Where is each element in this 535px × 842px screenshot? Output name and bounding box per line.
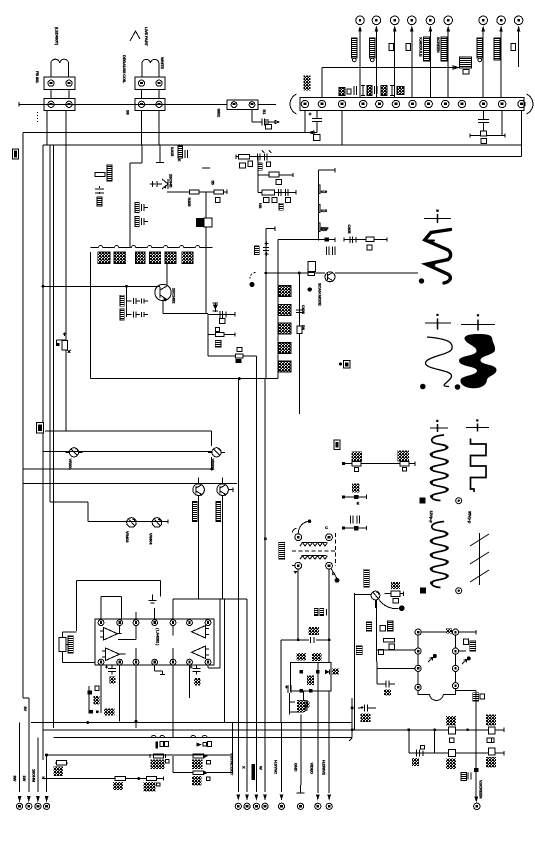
wire left col feed [376, 600, 415, 684]
svg-text:SCAN MODE: SCAN MODE [317, 283, 322, 306]
wire y469 [23, 468, 212, 470]
capacitor C513 [285, 685, 291, 693]
wire y580.3 [76, 580, 160, 631]
svg-text:16OHM: 16OHM [31, 769, 36, 783]
connector circle vscreen [474, 803, 480, 809]
wire base line y286 [43, 285, 155, 287]
op-amp tri LR [192, 646, 210, 659]
wire T501 D diagonal [331, 569, 337, 579]
capacitor C913 [419, 37, 430, 61]
component C503 [354, 495, 360, 506]
capacitor C606b [190, 666, 201, 686]
wire y502 [50, 501, 88, 503]
label box R312 [276, 179, 282, 184]
connector P901 lower [44, 99, 75, 111]
transistor Q301 [150, 179, 168, 189]
wire x206 down [205, 192, 207, 314]
diode pack D603 [279, 323, 291, 334]
test point arc [250, 272, 256, 278]
wire y428.5 [45, 430, 212, 432]
op-amp IC601 [95, 619, 214, 665]
wire bus y737.5 [54, 737, 353, 739]
speaker drop wires [20, 698, 47, 792]
svg-text:35Vp-p: 35Vp-p [468, 511, 473, 524]
label cluster x178 [178, 146, 188, 158]
waveform coil H3 [431, 522, 448, 588]
resistor R605 [366, 237, 374, 250]
speaker arrows [18, 796, 49, 803]
wire bus y730.6 [352, 728, 504, 732]
svg-text:C606: C606 [301, 305, 306, 315]
svg-text:DEGAUSS COIL: DEGAUSS COIL [122, 55, 127, 84]
junction dot [335, 578, 340, 583]
resistor R912 [406, 44, 411, 51]
coil H3 peak dots [430, 532, 449, 584]
component RT601 [289, 700, 309, 785]
wire bus y728 [43, 729, 352, 731]
connector P902 upper [135, 77, 165, 90]
test dot [399, 605, 405, 611]
waveform test dot 2 [420, 384, 426, 390]
terminal wires down [360, 30, 519, 98]
transformer bottom notch [418, 689, 455, 701]
wire left bus x49.8 [49, 145, 51, 502]
resistor R321 [236, 348, 243, 364]
wire q404 down [222, 496, 224, 599]
resistor R615 [446, 716, 456, 742]
svg-text:615: 615 [321, 208, 328, 213]
wire y639.8 [281, 639, 329, 641]
transformer block pins right [452, 629, 458, 689]
component black sq [324, 238, 329, 242]
wire bar pin1 drop [298, 111, 314, 135]
component B-B pair [314, 609, 329, 616]
svg-text:J609: J609 [320, 226, 329, 231]
wire pins2 [142, 90, 160, 99]
svg-text:V.SCREEN: V.SCREEN [478, 780, 483, 799]
trimpot VR301 [65, 448, 82, 471]
wire pin7 up [208, 599, 220, 668]
svg-text:X.MODULE: X.MODULE [419, 37, 424, 57]
wire y451.6 [43, 451, 212, 453]
component LNB [473, 693, 485, 702]
start dot [342, 495, 345, 498]
svg-text:619: 619 [321, 189, 328, 194]
svg-text:NS: NS [258, 203, 263, 209]
label stripes 701 [300, 702, 310, 708]
waveform sawtooth H4 [470, 533, 489, 585]
CRT socket bar [290, 94, 533, 114]
resistor R312 [269, 172, 279, 177]
resistor R616 [486, 715, 496, 743]
wire bus C y156.7 [236, 155, 522, 159]
capacitor C303 row [135, 203, 148, 213]
resistor R502 [400, 462, 409, 471]
junction dot [308, 287, 312, 291]
right top wire [459, 630, 477, 634]
gnd T mark [297, 785, 305, 793]
corner letters [264, 525, 335, 576]
diode pack D901 [98, 252, 110, 264]
wire row2 [258, 157, 293, 193]
center drop wires [233, 356, 282, 792]
wire box left x355 [355, 593, 371, 731]
resistor R407 [192, 754, 211, 769]
label box a [37, 423, 44, 434]
wire y762.8 [55, 762, 68, 764]
wire ic top box [101, 597, 155, 619]
wire row y772.6 [173, 756, 232, 773]
tick mark [156, 161, 164, 163]
capacitor C801 [262, 119, 268, 126]
component box 616 [339, 361, 350, 369]
label speckle C503 [352, 484, 359, 493]
resistor R306 [214, 190, 224, 194]
junction dot [308, 520, 312, 524]
wire conn2 drops [142, 111, 160, 146]
waveform axis 3 [461, 314, 495, 330]
capacitor C615 [358, 705, 376, 722]
wire y598.8 [173, 599, 247, 619]
resistor R406 [150, 754, 169, 769]
wire x160.7 [160, 580, 162, 596]
wire y483.5 [23, 483, 237, 485]
wire x211.7 lower [211, 457, 213, 469]
speaker circles [17, 803, 50, 809]
CRT terminal circles row [356, 16, 523, 25]
resistor R305 [189, 190, 199, 194]
wire row y239.5 right [344, 237, 387, 241]
diode D512 [325, 669, 339, 675]
wire y698 [23, 697, 29, 699]
IC inner wires [118, 626, 190, 661]
label MW left edge [13, 149, 19, 159]
waveform axis 1 [424, 210, 451, 224]
wire bus y722.5 [31, 722, 352, 724]
label boxes row3 [258, 198, 290, 211]
svg-text:GND: GND [293, 763, 298, 772]
diode pack D605 [279, 361, 291, 372]
wire x352 [349, 698, 352, 741]
svg-text:3W: 3W [13, 776, 18, 782]
capacitor C307 pair [120, 309, 148, 320]
svg-text:VIDEO: VIDEO [309, 763, 314, 775]
wire emitter y313.5 [163, 314, 208, 357]
component glyphs under y737 [156, 742, 212, 749]
degauss coil L901 [51, 59, 69, 77]
junction dot [42, 285, 45, 288]
op-amp tri UR [192, 626, 210, 639]
svg-text:SCREEN: SCREEN [436, 37, 441, 53]
capacitor C es [350, 236, 356, 242]
wire ic pin drops [101, 665, 190, 738]
wire T501 legs [298, 569, 329, 662]
svg-text:12Vp-p: 12Vp-p [429, 511, 434, 524]
pot mid component [56, 330, 71, 353]
svg-text:WHITE: WHITE [160, 57, 165, 69]
diode pack D906 [182, 252, 193, 264]
waveform axis 4 [430, 420, 448, 432]
diode pack D903 [136, 252, 146, 264]
resistor R313 [262, 190, 274, 195]
fuse box [266, 125, 272, 130]
svg-text:VR404: VR404 [149, 533, 154, 545]
wire row y463.7 [343, 462, 415, 466]
capacitor C306 pair [120, 286, 148, 317]
svg-text:H.DRIVE: H.DRIVE [321, 760, 326, 775]
resistor R510 [385, 582, 404, 603]
label box R306 [215, 198, 220, 203]
degauss coil 2 [142, 59, 159, 77]
wire vscreen arrow [474, 772, 478, 802]
wire bus B y145 [43, 144, 522, 146]
wire xray tail [289, 691, 303, 712]
junction dot [137, 777, 140, 780]
wire left loop [91, 237, 335, 378]
trimpot VR403 [125, 518, 136, 544]
trimpot V501 [371, 591, 380, 608]
junction dot [125, 285, 128, 288]
dot arrow 2 [462, 656, 471, 664]
wire pin3 left [377, 662, 415, 669]
wire conn pin drops [47, 111, 66, 331]
waveform thick sine V1 [425, 230, 451, 284]
svg-text:2SC945: 2SC945 [169, 174, 174, 188]
gnd T [376, 591, 399, 608]
label T501 [279, 543, 285, 560]
cluster above bar [339, 86, 404, 96]
svg-text:2SC2482: 2SC2482 [172, 288, 177, 304]
label speckle R502 [398, 451, 410, 462]
capacitor C802 [309, 111, 323, 141]
capacitor C915 [477, 38, 483, 62]
waveform thin sine V2 [425, 337, 452, 387]
start dot [342, 527, 345, 530]
wire rp1 [63, 632, 95, 663]
component mute [88, 686, 115, 715]
svg-text:VR403: VR403 [125, 531, 130, 543]
resistor R913 [511, 44, 516, 51]
wire xray drops [318, 691, 329, 793]
component IC602 [308, 262, 315, 276]
wire pins [51, 90, 69, 99]
svg-text:LIVE PART: LIVE PART [144, 27, 149, 47]
diode pack D904 [150, 252, 161, 264]
components left col [95, 165, 112, 206]
label C512 [308, 627, 319, 635]
svg-text:C605: C605 [347, 225, 352, 235]
bracket bumps [99, 246, 200, 248]
junction dots center [351, 706, 354, 731]
wire x206 top tick [202, 167, 210, 169]
label Q404 [216, 502, 221, 522]
component C617 [461, 772, 471, 781]
resistor R621 [113, 776, 126, 790]
left column components [356, 621, 394, 655]
capacitor C512 [311, 637, 314, 643]
label box 440 [334, 440, 340, 450]
resistor R320 [215, 333, 223, 348]
capacitor C311 [258, 151, 272, 161]
junction dot [265, 272, 268, 275]
op-amp tri UL [100, 628, 118, 641]
wire top right of q301 [160, 161, 164, 163]
waveform test dot [419, 278, 424, 283]
svg-text:8V: 8V [23, 707, 28, 712]
inductor L302 [208, 328, 235, 337]
resistor R606 [297, 325, 306, 333]
wire row y753.1 [409, 730, 504, 756]
capacitor C606 [296, 305, 306, 315]
J601 bump 2 [318, 204, 327, 213]
svg-text:K: K [41, 777, 46, 780]
label NFL [304, 75, 311, 90]
wire y314.3 [208, 312, 235, 316]
wire x266 vertical [266, 226, 275, 378]
label boxes row1 [240, 161, 271, 170]
wire main y104 [19, 102, 276, 107]
connector S801 [227, 100, 258, 110]
junction dot [135, 720, 138, 723]
ground sym [149, 595, 157, 603]
diode pack D601 [279, 286, 291, 297]
junction dot [297, 638, 300, 641]
capacitor C616 [412, 746, 425, 767]
capacitor C305 row [135, 217, 148, 227]
dot arrow 1 [428, 654, 437, 662]
test arc [379, 600, 399, 609]
svg-text:S801: S801 [217, 109, 222, 119]
transistor Q403 [193, 478, 205, 497]
junction dot [210, 468, 213, 471]
svg-text:C: C [325, 525, 328, 530]
wire bar pin3 drop [341, 111, 343, 145]
diode pack D905 [165, 252, 176, 264]
junction square [474, 768, 479, 772]
capacitor C914 [436, 37, 447, 61]
component D302 [196, 218, 212, 227]
wire y356 [208, 355, 257, 357]
J601 bump 1 [318, 185, 327, 194]
center circles [235, 803, 332, 809]
wire left bus x23 [22, 133, 24, 699]
wire right pin2 [459, 650, 466, 652]
wire heater feed [322, 66, 458, 98]
svg-text:V.SYNC.OUT: V.SYNC.OUT [229, 753, 234, 776]
transformer T501 [292, 533, 336, 569]
transformer top link [421, 628, 452, 633]
capacitor C912 [370, 38, 376, 62]
test point dot [249, 282, 254, 287]
marker square [420, 498, 426, 504]
transistor Q302 [155, 264, 171, 314]
transistor Q404 [217, 478, 233, 497]
resistor R462 [144, 777, 160, 792]
label speckle R501 [351, 452, 362, 462]
connector J601 stub [318, 168, 334, 240]
wire x277.8 packages stubs [278, 291, 279, 366]
wire row3 [258, 190, 296, 194]
diode pack D902 [114, 252, 126, 264]
resistor R501 [352, 462, 361, 472]
transformer block pins left [415, 629, 421, 691]
connector P901 upper [44, 77, 75, 90]
marker square 2 [420, 588, 426, 594]
capacitor C401 plus [263, 242, 269, 257]
wire y778.5 [43, 776, 163, 780]
trimpot RP1 [59, 632, 73, 657]
junction dot [238, 377, 241, 380]
wire q301 feed [130, 145, 160, 248]
wire conn3 drop [252, 110, 279, 124]
terminal letters [359, 19, 520, 22]
capacitor C611 [384, 681, 395, 696]
corner curl TL [293, 529, 297, 533]
diode D310 [213, 302, 219, 312]
connector P902 lower [135, 99, 165, 111]
capacitor C803 [470, 120, 505, 144]
waveform square H2 [471, 439, 487, 493]
label C401 [255, 246, 260, 255]
caret mark [130, 31, 140, 41]
svg-text:RT601: RT601 [304, 700, 309, 712]
wire x281 long [280, 640, 282, 723]
junction squares [299, 670, 319, 693]
diode pack D604 [279, 343, 291, 354]
pin squares [417, 631, 457, 689]
label V501 stripes [364, 569, 370, 587]
wire x211.7 [211, 431, 213, 446]
J601 bump 3 [318, 223, 327, 232]
wire emitter row y191.9 [167, 190, 227, 194]
capacitor C911 [352, 38, 358, 62]
terminal arrows up [358, 26, 520, 32]
wire q403 down [198, 496, 200, 599]
diode pack D602 [279, 305, 291, 316]
junction dots bus [407, 728, 469, 731]
wire y521.5 [88, 519, 168, 523]
label black bar [251, 764, 254, 780]
center arrows [236, 794, 331, 801]
svg-text:FB 801: FB 801 [35, 71, 40, 84]
wire row y528 [343, 526, 366, 530]
wire pin4 gnd [155, 665, 165, 675]
capacitor C916 [494, 38, 500, 60]
waveform coil H1 [431, 435, 448, 501]
marker circle [456, 498, 462, 504]
capacitor row small [327, 247, 336, 256]
wire x88 [87, 502, 89, 522]
svg-text:H.SYNC: H.SYNC [274, 760, 279, 774]
label stripes 652b [312, 653, 322, 661]
wire x65.8 lower [65, 349, 67, 431]
wire row y496.9 [343, 495, 366, 499]
wire right cluster row1 [236, 156, 300, 158]
svg-text:VR301: VR301 [68, 459, 73, 471]
box xray [291, 662, 331, 690]
junction dots left [45, 710, 99, 756]
capacitor C605 [105, 666, 116, 684]
capacitor C504 [350, 516, 359, 531]
svg-text:R305: R305 [187, 198, 192, 208]
transistor Q601 [325, 272, 335, 282]
wire line y273 [264, 272, 418, 274]
capacitor C313 [279, 189, 289, 196]
wire x299.4 vertical [298, 273, 300, 414]
svg-text:0.015: 0.015 [170, 147, 175, 157]
resistor R408 [192, 771, 210, 786]
op-amp tri LL [102, 648, 120, 661]
